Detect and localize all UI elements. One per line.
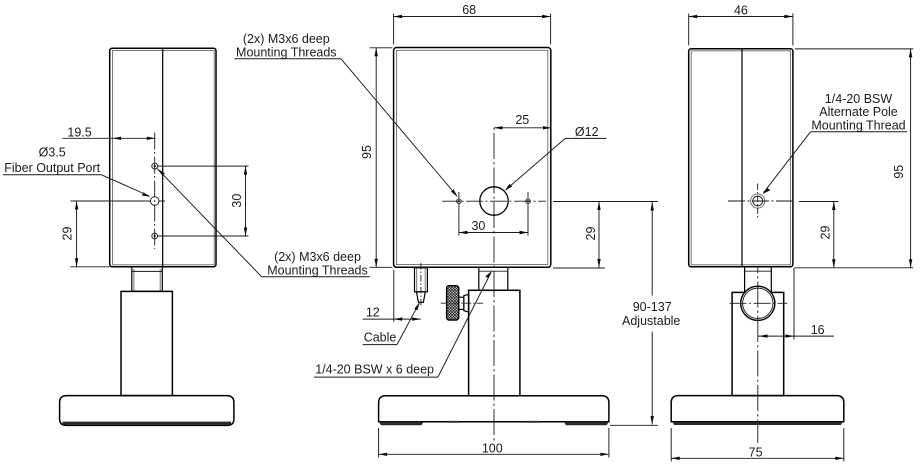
front head body <box>394 48 551 268</box>
svg-text:(2x) M3x6 deep: (2x) M3x6 deep <box>243 32 330 46</box>
thumbscrew center line <box>441 302 485 304</box>
knurled thumbscrew knob <box>447 286 459 320</box>
dimension 95 (right) extension lines <box>795 48 913 50</box>
svg-text:Mounting Threads: Mounting Threads <box>267 263 368 277</box>
svg-text:Mounting Thread: Mounting Thread <box>811 119 905 133</box>
leader from top M3 hole to lower-right label <box>157 169 262 277</box>
dimension 75 line <box>671 457 844 459</box>
dimension 95 arrows <box>375 48 378 57</box>
dimension 100 line <box>379 453 609 455</box>
dimension 29 (right) line <box>833 202 835 268</box>
dimension 16 line <box>758 335 834 337</box>
svg-text:12: 12 <box>366 306 380 320</box>
extension line head bottom right to 29 <box>553 267 605 269</box>
front post <box>469 290 520 396</box>
right base <box>671 396 844 422</box>
left view head body <box>110 48 216 267</box>
leader dia12 to hole <box>565 137 606 139</box>
dimension 95 (left of front view) extension lines <box>370 47 393 49</box>
front base <box>379 396 609 422</box>
dimension 19.5 line <box>62 137 155 139</box>
dimension 29 (front right) line <box>598 202 600 268</box>
svg-text:1/4-20 BSW: 1/4-20 BSW <box>825 92 893 106</box>
svg-text:75: 75 <box>749 445 763 459</box>
svg-text:16: 16 <box>811 323 825 337</box>
dimension 75 arrows <box>671 457 680 460</box>
dimension 46 line <box>689 16 793 18</box>
svg-text:25: 25 <box>515 113 529 127</box>
front cable connector taper <box>417 292 426 303</box>
fiber output port hole (side) <box>150 197 159 206</box>
right view post <box>732 292 784 395</box>
left view base rubber foot band <box>63 422 232 425</box>
leader top label to front left M3 hole <box>341 59 457 196</box>
svg-text:29: 29 <box>584 227 598 241</box>
extension line head bottom-left to 29 dim <box>71 266 110 268</box>
svg-text:30: 30 <box>230 194 244 208</box>
dimension 68 line <box>394 16 551 18</box>
dimension 25 line <box>494 127 552 129</box>
svg-text:Fiber Output Port: Fiber Output Port <box>4 161 100 175</box>
svg-text:Cable: Cable <box>364 331 397 345</box>
svg-text:29: 29 <box>61 227 75 241</box>
dimension 16 extension line <box>793 268 795 340</box>
extension line top hole to 30 dim <box>158 165 249 167</box>
dimension 100 arrows <box>379 453 388 456</box>
left view head front/back divider line <box>162 48 164 266</box>
svg-text:Mounting Threads: Mounting Threads <box>236 45 337 59</box>
svg-text:(2x) M3x6 deep: (2x) M3x6 deep <box>274 250 361 264</box>
front base left foot <box>379 422 424 425</box>
thumbscrew shaft <box>459 297 464 309</box>
svg-text:90-137: 90-137 <box>633 300 672 314</box>
dimension 95 (right) line <box>910 49 912 268</box>
dimension 30 (front) extension lines <box>458 211 460 236</box>
svg-text:1/4-20 BSW x 6 deep: 1/4-20 BSW x 6 deep <box>315 363 434 377</box>
dimension 30 (front) line <box>459 232 528 234</box>
svg-text:29: 29 <box>819 226 833 240</box>
dimension 68 arrows <box>394 15 403 18</box>
left view head inner edge lines <box>113 50 215 264</box>
leader label to hole <box>764 132 811 193</box>
cable center line <box>420 263 422 306</box>
right head divider <box>741 49 743 267</box>
left view post neck <box>132 267 163 292</box>
left view post <box>121 291 172 395</box>
svg-text:95: 95 <box>360 145 374 159</box>
dimension 29 arrows <box>75 201 78 210</box>
leader cable label to connector <box>397 304 419 345</box>
right 1/4-20 alternate hole <box>753 196 763 206</box>
dimension 46 arrows <box>689 15 698 18</box>
extension line from hole center to right dims <box>553 201 658 203</box>
svg-text:Alternate Pole: Alternate Pole <box>819 105 898 119</box>
front dia12 hole <box>480 187 508 215</box>
dimension 68 extension lines <box>393 14 395 45</box>
vertical center line through front hole <box>493 125 495 443</box>
front post neck <box>479 267 508 290</box>
dimension 19.5 arrows <box>113 137 122 140</box>
front cable connector <box>415 268 428 292</box>
label underline <box>3 174 102 176</box>
svg-text:68: 68 <box>462 3 476 17</box>
leader to fiber port <box>102 175 150 196</box>
dimension 25 arrows <box>494 126 503 129</box>
dimension 12 extension line <box>393 270 395 322</box>
extension line base bottom to 90-137 <box>610 424 658 426</box>
svg-text:19.5: 19.5 <box>67 125 91 139</box>
right thumbscrew hole center lines <box>730 302 788 304</box>
M3 mounting hole top (side) <box>152 163 158 169</box>
left view hole center line (vertical dash-dot) <box>154 133 156 250</box>
dimension 95 (right) arrows <box>909 49 912 58</box>
M3 mounting hole bottom (side) <box>152 233 158 239</box>
dimension 12 line <box>363 318 421 320</box>
svg-text:100: 100 <box>482 442 503 456</box>
extension line hole to 29 dim <box>799 201 839 203</box>
right head body <box>689 49 793 267</box>
dimension 30 (left view) line <box>245 166 247 236</box>
dimension 95 line <box>375 48 377 267</box>
dimension 12 arrows <box>394 317 403 320</box>
svg-text:46: 46 <box>734 3 748 17</box>
dimension 30 arrows <box>244 166 247 175</box>
right base rubber foot band <box>673 422 843 425</box>
svg-text:30: 30 <box>471 219 485 233</box>
front base right foot <box>564 422 609 425</box>
svg-text:Ø12: Ø12 <box>575 125 599 139</box>
front M3 hole left <box>457 199 461 203</box>
leader to post thread <box>438 273 491 378</box>
front head inner edge lines <box>397 50 548 264</box>
right head inner edge lines <box>691 51 790 265</box>
dimension 29 (left view) line <box>76 201 78 267</box>
front M3 hole right <box>526 199 530 203</box>
svg-text:95: 95 <box>892 165 906 179</box>
extension line fiber port to 29 dim <box>71 200 151 202</box>
right view post neck <box>745 267 772 293</box>
dimension 90-137 adjustable <box>651 202 653 296</box>
extension line bottom hole to 30 dim <box>158 235 249 237</box>
dimension 100 extension lines <box>378 428 380 458</box>
horizontal center line right hole <box>728 200 795 202</box>
svg-text:Ø3.5: Ø3.5 <box>39 145 66 159</box>
dimension 30 (front) arrows <box>459 231 468 234</box>
dimension 16 arrows <box>759 334 768 337</box>
front base far feet marks <box>447 421 461 423</box>
horizontal center line through holes <box>442 200 546 202</box>
dimension 46 extension lines <box>688 14 690 46</box>
left view base <box>60 396 234 426</box>
right view thumbscrew hole <box>741 286 775 320</box>
svg-text:Adjustable: Adjustable <box>622 314 680 328</box>
dimension 75 extension lines <box>670 428 672 462</box>
